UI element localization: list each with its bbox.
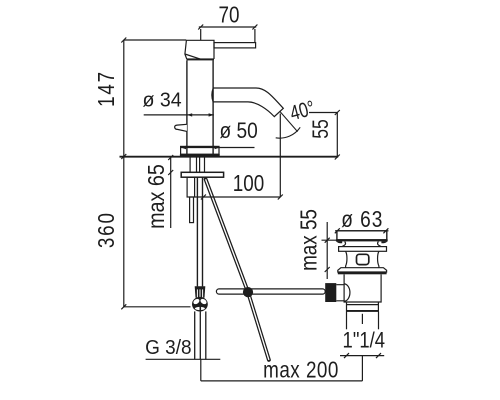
horizontal rod bbox=[216, 289, 325, 294]
svg-text:G 3/8: G 3/8 bbox=[145, 337, 191, 360]
tick at y40 bbox=[121, 38, 126, 43]
dimension 1-1/4 line bbox=[340, 355, 384, 357]
svg-text:55: 55 bbox=[309, 119, 333, 139]
deck line bbox=[120, 156, 339, 158]
faucet body right edge bbox=[212, 60, 214, 154]
fixing nut bbox=[187, 177, 195, 197]
spout axis extension line bbox=[280, 111, 298, 131]
drain flange bottom band bbox=[336, 239, 388, 241]
pull rod boss bbox=[336, 285, 344, 301]
svg-text:max 65: max 65 bbox=[144, 164, 170, 229]
extension 1-1/4 left bbox=[346, 312, 348, 330]
fixing washer plate bbox=[181, 172, 223, 177]
pop-up rod diagonal (outer) bbox=[206, 179, 269, 360]
tick at y306.8 bbox=[121, 304, 126, 309]
drain body bbox=[344, 274, 381, 302]
dimension 55 horizontal connector bbox=[309, 112, 337, 114]
extension line bottom to hose fitting bbox=[124, 306, 191, 308]
svg-text:max 55: max 55 bbox=[297, 209, 322, 271]
o50 underline bbox=[180, 147, 254, 149]
cartridge lever split line bbox=[185, 54, 201, 59]
tick at deck bbox=[121, 154, 126, 159]
svg-text:ø 50: ø 50 bbox=[219, 118, 257, 143]
handle lever bbox=[214, 43, 256, 48]
dimension 70 line bbox=[199, 26, 256, 28]
extension 1-1/4 right bbox=[378, 312, 380, 330]
flange left foot bbox=[336, 241, 342, 243]
tailpipe bottom band bbox=[346, 310, 379, 312]
svg-text:max 200: max 200 bbox=[263, 358, 339, 383]
drain slip ring bbox=[339, 247, 387, 252]
extension line top to cartridge bbox=[124, 39, 187, 41]
extension 70 left bbox=[200, 29, 202, 40]
cartridge head bbox=[185, 40, 214, 59]
extension max55 top bbox=[322, 239, 340, 241]
supply hose upper bbox=[196, 177, 198, 286]
drain axis line lower bbox=[361, 356, 363, 381]
dimension max55 line bbox=[326, 222, 328, 279]
tick 70 left bbox=[198, 25, 203, 30]
hose collar band bbox=[195, 286, 206, 298]
drain neck bbox=[342, 242, 381, 247]
spout back bulge bbox=[212, 88, 213, 102]
hose collar rib slits bbox=[197, 289, 198, 297]
G3/8 underline bbox=[146, 358, 221, 360]
svg-text:100: 100 bbox=[233, 171, 264, 196]
svg-text:360: 360 bbox=[94, 211, 119, 248]
supply hose lower bbox=[194, 311, 196, 359]
dimension line 147/360 vertical bbox=[123, 40, 125, 307]
cartridge bottom thick bbox=[187, 58, 214, 60]
aerator hook on body left bbox=[175, 124, 187, 131]
faucet body left edge bbox=[186, 60, 188, 154]
ball joint bbox=[243, 287, 253, 297]
spout tip vertical extension bbox=[279, 114, 281, 198]
tick 70 right bbox=[252, 25, 257, 30]
boss arc inside body bbox=[344, 284, 350, 301]
svg-text:147: 147 bbox=[94, 70, 119, 107]
svg-text:70: 70 bbox=[219, 3, 240, 28]
spout bbox=[213, 88, 283, 117]
svg-text:ø 63: ø 63 bbox=[341, 207, 383, 232]
tailpipe bbox=[347, 302, 379, 311]
G3/8 ball nut bbox=[192, 297, 208, 312]
drain center square bbox=[357, 254, 369, 264]
pull rod knob black bbox=[325, 283, 336, 302]
svg-text:1"1/4: 1"1/4 bbox=[343, 329, 385, 353]
drain flange bbox=[337, 231, 387, 240]
max200 left riser bbox=[200, 360, 202, 381]
extension 70 right bbox=[254, 29, 256, 43]
o34 underline bbox=[144, 114, 214, 116]
dimension o63 line bbox=[335, 230, 389, 232]
dimension 100 bbox=[195, 196, 281, 198]
drain body waist bbox=[346, 251, 379, 267]
drain bottom flange bbox=[338, 268, 387, 272]
dimension max200 line bbox=[201, 380, 363, 382]
drain axis line upper bbox=[361, 314, 363, 324]
threaded stud bbox=[190, 197, 194, 223]
dimension max65 line bbox=[170, 158, 172, 229]
drain gasket dark band bbox=[338, 272, 387, 275]
svg-text:ø 34: ø 34 bbox=[142, 89, 181, 111]
flange right foot bbox=[381, 241, 387, 243]
base flange bbox=[181, 146, 219, 154]
dimension 55 vertical bbox=[336, 113, 338, 158]
shank lines under deck bbox=[189, 157, 191, 172]
pop-up rod diagonal (inner white) bbox=[206, 179, 269, 360]
40 degree arc bbox=[276, 127, 301, 138]
base flange dark band bbox=[180, 154, 220, 156]
